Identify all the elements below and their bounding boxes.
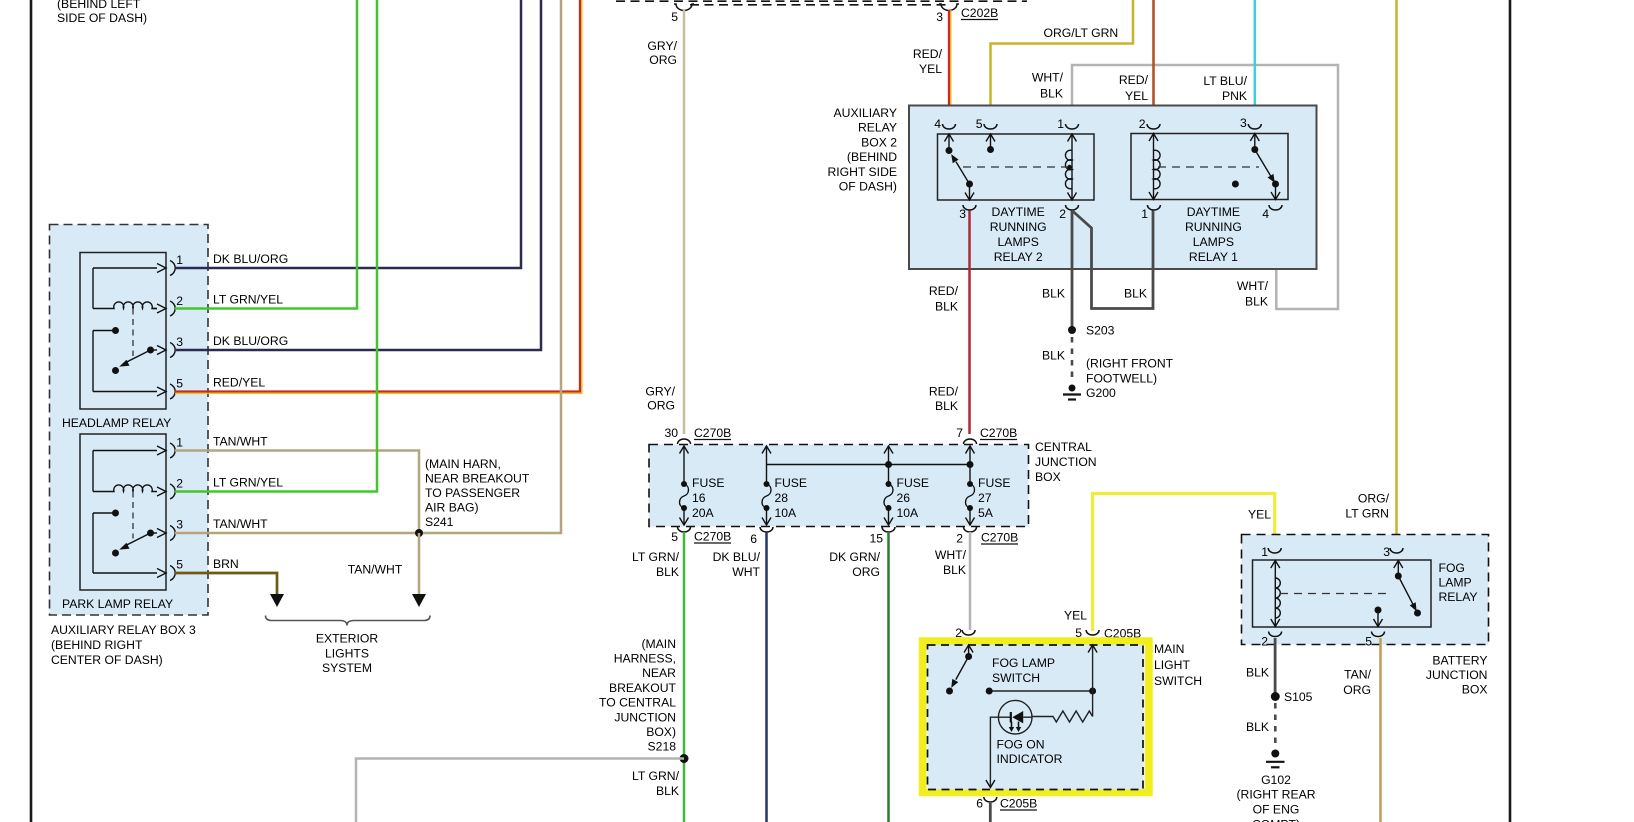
svg-text:CENTRAL: CENTRAL [1035, 440, 1092, 454]
svg-text:3: 3 [176, 335, 183, 349]
svg-text:20A: 20A [692, 506, 715, 520]
svg-text:LAMP: LAMP [1439, 576, 1472, 590]
svg-text:HEADLAMP RELAY: HEADLAMP RELAY [62, 416, 171, 430]
svg-text:MAIN: MAIN [1154, 642, 1184, 656]
svg-text:BOX 2: BOX 2 [861, 135, 897, 149]
svg-text:LT BLU/: LT BLU/ [1203, 74, 1247, 88]
svg-text:G200: G200 [1086, 386, 1116, 400]
svg-text:C205B: C205B [1000, 797, 1037, 811]
svg-text:27: 27 [978, 491, 992, 505]
svg-text:BLK: BLK [1042, 349, 1065, 363]
box: BATTERY JUNCTION BOX (dashed) [1242, 535, 1489, 697]
svg-text:3: 3 [959, 207, 966, 221]
fog lamp switch pin 5 internal wire and resistor [1032, 645, 1097, 722]
svg-text:NEAR BREAKOUT: NEAR BREAKOUT [425, 472, 530, 486]
svg-text:FOG ON: FOG ON [997, 738, 1045, 752]
relay 1 pin 3 connector [1240, 116, 1261, 130]
brace EXTERIOR LIGHTS SYSTEM [266, 616, 431, 676]
fog lamp relay internal pin 5 stub [1374, 607, 1383, 628]
svg-text:YEL: YEL [919, 62, 942, 76]
svg-text:PARK LAMP RELAY: PARK LAMP RELAY [62, 597, 173, 611]
svg-text:LT GRN/YEL: LT GRN/YEL [213, 476, 283, 490]
svg-text:DK BLU/: DK BLU/ [713, 550, 761, 564]
fog lamp relay pin 2 bottom connector [1261, 632, 1281, 649]
svg-text:SYSTEM: SYSTEM [322, 661, 372, 675]
svg-text:ORG: ORG [1343, 683, 1371, 697]
label (BEHIND LEFT SIDE OF DASH) [57, 0, 147, 25]
svg-text:BLK: BLK [935, 300, 958, 314]
svg-text:WHT/: WHT/ [1032, 71, 1064, 85]
relay 2 pin 1 connector [1057, 117, 1078, 131]
svg-text:3: 3 [1383, 545, 1390, 559]
svg-text:(BEHIND RIGHT: (BEHIND RIGHT [51, 638, 143, 652]
CJB pin 5 bottom connector [671, 527, 731, 544]
fog lamp switch internal switch [946, 645, 973, 695]
svg-text:JUNCTION: JUNCTION [614, 710, 676, 724]
headlamp relay pin connectors ) [170, 253, 183, 399]
svg-text:WHT: WHT [732, 565, 760, 579]
svg-text:3: 3 [176, 518, 183, 532]
fog lamp switch pin 2 connector [955, 626, 975, 640]
fuse 26 10A [884, 446, 929, 525]
svg-text:TAN/: TAN/ [1344, 668, 1371, 682]
wire BLK dashed S203 to G200 [1042, 337, 1072, 383]
relay 2 coil pin 1 to pin 2 [963, 134, 1077, 200]
fog lamp switch internal row wire [986, 688, 1096, 695]
svg-text:BRN: BRN [213, 557, 239, 571]
wire LT GRN/YEL headlamp pin 2 [175, 0, 357, 309]
headlamp relay coil loop and contacts [93, 264, 166, 397]
relay 1 pin 1 bottom connector [1141, 205, 1160, 221]
wire BLK dashed S105 to G102 [1246, 703, 1275, 746]
park lamp relay pin connectors ) [170, 436, 183, 581]
svg-text:TAN/WHT: TAN/WHT [348, 563, 403, 577]
svg-text:DK BLU/ORG: DK BLU/ORG [213, 252, 288, 266]
svg-text:ORG: ORG [852, 565, 880, 579]
svg-text:TAN/WHT: TAN/WHT [213, 517, 268, 531]
svg-text:BOX: BOX [1462, 683, 1488, 697]
svg-text:6: 6 [976, 797, 983, 811]
CJB pin 15 bottom connector [869, 527, 895, 546]
splice S203 [1068, 324, 1115, 338]
svg-text:C202B: C202B [961, 6, 998, 20]
svg-text:5: 5 [671, 530, 678, 544]
wire DK BLU/WHT from CJB pin 6 down [713, 532, 767, 822]
svg-text:GRY/: GRY/ [645, 385, 675, 399]
svg-text:3: 3 [936, 10, 943, 24]
svg-text:DK GRN/: DK GRN/ [829, 550, 880, 564]
wire WHT/BLK from CJB pin 2 down to fog lamp switch pin 2 [935, 532, 970, 630]
svg-text:FOG LAMP: FOG LAMP [992, 656, 1055, 670]
relay 2 pin 4 connector [934, 117, 955, 131]
wire GRY/ORG from C202B pin 5 down to CJB pin 30 [645, 10, 684, 434]
svg-text:AIR BAG): AIR BAG) [425, 501, 479, 515]
svg-text:5: 5 [176, 377, 183, 391]
ground G102 [1237, 750, 1316, 822]
svg-text:YEL: YEL [1125, 89, 1148, 103]
svg-text:RELAY: RELAY [858, 121, 897, 135]
svg-text:5: 5 [671, 10, 678, 24]
wire DK BLU/ORG headlamp pin 3 [175, 0, 541, 350]
wire RED/BLK relay 2 pin 3 down to CJB pin 7 [929, 211, 970, 435]
relay: DAYTIME RUNNING LAMPS RELAY 2 box [938, 134, 1095, 264]
wire BLK relay 1 pin 1 loop to relay 2 pin 2 [1072, 211, 1153, 309]
svg-text:ORG: ORG [647, 399, 675, 413]
svg-text:(MAIN: (MAIN [641, 637, 676, 651]
svg-text:LAMPS: LAMPS [998, 235, 1039, 249]
svg-text:LAMPS: LAMPS [1193, 235, 1234, 249]
svg-text:5: 5 [176, 558, 183, 572]
svg-text:RELAY 2: RELAY 2 [994, 250, 1043, 264]
svg-text:LT GRN: LT GRN [1345, 507, 1389, 521]
svg-text:4: 4 [934, 117, 941, 131]
svg-text:WHT/: WHT/ [935, 548, 967, 562]
svg-text:S203: S203 [1086, 324, 1115, 338]
fog lamp relay pin 5 bottom connector [1365, 632, 1384, 649]
wire WHT/BLK loop from relay 1 pin 4 around to relay 2 pin 1 [1032, 65, 1338, 309]
svg-text:ORG: ORG [649, 53, 677, 67]
fog lamp relay internal switch pin 3 [1394, 560, 1421, 617]
relay: DAYTIME RUNNING LAMPS RELAY 1 box [1131, 134, 1288, 265]
svg-text:(BEHIND: (BEHIND [847, 150, 897, 164]
svg-text:FUSE: FUSE [775, 476, 808, 490]
box: AUXILIARY RELAY BOX 3 (dashed) [50, 225, 209, 668]
svg-text:COMPT): COMPT) [1252, 818, 1300, 822]
svg-text:FOOTWELL): FOOTWELL) [1086, 372, 1157, 386]
wire DK BLU/ORG headlamp pin 1 [175, 0, 521, 268]
relay: HEADLAMP RELAY box [62, 253, 171, 431]
svg-text:5: 5 [1365, 635, 1372, 649]
CJB pin 2 bottom connector [956, 527, 1018, 546]
svg-text:RUNNING: RUNNING [1185, 220, 1242, 234]
svg-text:LT GRN/: LT GRN/ [632, 550, 680, 564]
svg-text:BLK: BLK [1040, 87, 1063, 101]
svg-text:FUSE: FUSE [978, 476, 1011, 490]
svg-text:2: 2 [176, 294, 183, 308]
fog lamp relay pin 1 connector [1261, 545, 1281, 559]
svg-text:LT GRN/: LT GRN/ [632, 769, 680, 783]
svg-text:CENTER OF DASH): CENTER OF DASH) [51, 653, 163, 667]
svg-text:BOX: BOX [1035, 470, 1061, 484]
svg-text:C270B: C270B [980, 426, 1017, 440]
fuse 28 10A [762, 446, 807, 525]
svg-text:3: 3 [1240, 116, 1247, 130]
connector pin 5 C202B [671, 4, 694, 24]
wire ORG/LT GRN from top into relay 2 pin 5 [991, 0, 1134, 124]
svg-text:LIGHTS: LIGHTS [325, 647, 369, 661]
svg-text:ORG/: ORG/ [1358, 492, 1390, 506]
svg-text:BLK: BLK [1245, 295, 1268, 309]
svg-text:JUNCTION: JUNCTION [1035, 455, 1097, 469]
wire BLK relay 2 pin 2 down to S203 [1042, 211, 1072, 331]
fog lamp switch pin 6 connector [976, 797, 1037, 811]
svg-text:5A: 5A [978, 506, 994, 520]
wire BRN park pin 5 to exterior lights arrow [175, 557, 284, 607]
park lamp relay coil loop and contacts [93, 446, 166, 578]
wire BLK from fog lamp switch pin 6 down [989, 803, 992, 822]
LED FOG ON INDICATOR [997, 700, 1063, 766]
relay: FOG LAMP RELAY box [1253, 560, 1478, 627]
svg-text:HARNESS,: HARNESS, [614, 652, 676, 666]
relay 2 pin 2 bottom connector [1059, 205, 1078, 221]
svg-text:2: 2 [1261, 635, 1268, 649]
svg-text:(BEHIND LEFT: (BEHIND LEFT [57, 0, 141, 11]
box: AUXILIARY RELAY BOX 2 [827, 106, 1316, 270]
relay 2 internal switch from pin 4 to pin 3 [945, 134, 975, 200]
svg-text:BLK: BLK [1246, 720, 1269, 734]
svg-text:BLK: BLK [656, 565, 679, 579]
svg-text:1: 1 [176, 436, 183, 450]
relay: PARK LAMP RELAY box [62, 434, 173, 611]
svg-text:RED/: RED/ [929, 385, 959, 399]
svg-text:SIDE OF DASH): SIDE OF DASH) [57, 11, 147, 25]
dashed connector bar C202B at top [616, 1, 1027, 5]
svg-text:S241: S241 [425, 515, 454, 529]
svg-text:BATTERY: BATTERY [1432, 654, 1487, 668]
wire: left page border line [30, 0, 33, 822]
svg-text:16: 16 [692, 491, 706, 505]
svg-text:YEL: YEL [1248, 508, 1271, 522]
svg-text:RELAY 1: RELAY 1 [1189, 250, 1238, 264]
svg-text:OF ENG: OF ENG [1253, 803, 1300, 817]
wire ORG/LT GRN from top down to fog lamp relay pin 3 [1345, 0, 1396, 548]
splice S105 [1271, 690, 1313, 704]
svg-text:1: 1 [1141, 207, 1148, 221]
svg-text:2: 2 [1059, 207, 1066, 221]
svg-text:BLK: BLK [1246, 666, 1269, 680]
relay 1 pin 4 bottom connector [1262, 205, 1282, 221]
svg-text:(RIGHT REAR: (RIGHT REAR [1237, 788, 1316, 802]
svg-text:WHT/: WHT/ [1237, 279, 1269, 293]
fog lamp relay pin 3 connector [1383, 545, 1403, 559]
svg-text:BLK: BLK [1124, 287, 1147, 301]
svg-text:(MAIN HARN,: (MAIN HARN, [425, 457, 501, 471]
CJB internal bus wire [767, 461, 974, 468]
relay 2 pin 5 connector [976, 117, 997, 131]
svg-text:AUXILIARY: AUXILIARY [834, 106, 897, 120]
relay 1 pin 2 connector [1139, 117, 1160, 131]
svg-text:TO CENTRAL: TO CENTRAL [599, 696, 676, 710]
svg-text:FUSE: FUSE [897, 476, 930, 490]
svg-text:FOG: FOG [1439, 561, 1465, 575]
box: FOG LAMP SWITCH (yellow highlight) [923, 641, 1150, 793]
svg-text:1: 1 [176, 253, 183, 267]
svg-text:BREAKOUT: BREAKOUT [609, 681, 677, 695]
relay 2 internal pin 5 contact stub [986, 134, 995, 153]
wire BLK fog lamp relay pin 2 to S105 [1246, 638, 1275, 697]
svg-text:S218: S218 [648, 740, 677, 754]
CJB pin 7 connector [956, 426, 1017, 444]
svg-text:INDICATOR: INDICATOR [997, 752, 1063, 766]
svg-text:G102: G102 [1261, 773, 1291, 787]
svg-text:DK BLU/ORG: DK BLU/ORG [213, 334, 288, 348]
splice S241 [415, 457, 530, 537]
svg-text:RED/: RED/ [1119, 73, 1149, 87]
svg-text:RED/YEL: RED/YEL [213, 376, 265, 390]
svg-text:ORG/LT GRN: ORG/LT GRN [1044, 26, 1119, 40]
svg-text:LT GRN/YEL: LT GRN/YEL [213, 293, 283, 307]
svg-text:BLK: BLK [1042, 287, 1065, 301]
wire DK GRN/ORG from CJB pin 15 down [829, 532, 888, 822]
svg-text:BLK: BLK [656, 784, 679, 798]
svg-text:2: 2 [176, 477, 183, 491]
svg-text:4: 4 [1262, 207, 1269, 221]
svg-text:JUNCTION: JUNCTION [1426, 668, 1488, 682]
wire TAN/ORG fog lamp relay pin 5 down [1343, 638, 1380, 822]
wire: right page border line [1509, 0, 1512, 822]
CJB pin 6 bottom connector [750, 527, 773, 546]
svg-text:10A: 10A [775, 506, 798, 520]
svg-text:5: 5 [976, 117, 983, 131]
svg-text:(RIGHT FRONT: (RIGHT FRONT [1086, 357, 1174, 371]
fog lamp relay coil pin 1 to pin 2 [1271, 560, 1390, 627]
svg-text:BLK: BLK [943, 563, 966, 577]
svg-text:S105: S105 [1284, 690, 1313, 704]
svg-text:1: 1 [1057, 117, 1064, 131]
svg-text:DAYTIME: DAYTIME [992, 205, 1045, 219]
svg-text:FUSE: FUSE [692, 476, 725, 490]
svg-text:TO PASSENGER: TO PASSENGER [425, 486, 520, 500]
svg-text:BLK: BLK [935, 399, 958, 413]
relay 2 pin 3 bottom connector [959, 205, 976, 221]
svg-text:RELAY: RELAY [1439, 590, 1478, 604]
svg-text:10A: 10A [897, 506, 920, 520]
svg-text:1: 1 [1261, 545, 1268, 559]
svg-text:C270B: C270B [694, 426, 731, 440]
svg-text:30: 30 [664, 426, 678, 440]
fuse 27 5A [966, 446, 1011, 525]
svg-text:PNK: PNK [1222, 89, 1247, 103]
svg-text:15: 15 [869, 532, 883, 546]
svg-text:GRY/: GRY/ [647, 39, 677, 53]
svg-text:2: 2 [956, 532, 963, 546]
svg-text:NEAR: NEAR [642, 666, 676, 680]
svg-text:7: 7 [956, 426, 963, 440]
svg-text:C270B: C270B [694, 530, 731, 544]
wire YEL from fog lamp switch pin 5 up and over to fog lamp relay pin 1 [1064, 494, 1275, 632]
svg-text:LIGHT: LIGHT [1154, 658, 1190, 672]
wire LT GRN/YEL park pin 2 [175, 0, 377, 492]
wire TAN/WHT drop from S241 to exterior lights arrow [348, 533, 426, 607]
relay 1 internal switch from pin 3 to pin 4 [1232, 134, 1280, 200]
wire RED/YEL headlamp pin 5 [175, 0, 582, 393]
fog lamp switch pin 5 connector [1075, 626, 1141, 641]
svg-text:C270B: C270B [981, 531, 1018, 545]
svg-text:RUNNING: RUNNING [990, 220, 1047, 234]
wire TAN/WHT park pin 3 to splice and up [175, 0, 561, 533]
fuse 16 20A [680, 446, 725, 525]
box: CENTRAL JUNCTION BOX (dashed) [649, 440, 1097, 527]
svg-text:OF DASH): OF DASH) [839, 180, 897, 194]
svg-text:DAYTIME: DAYTIME [1187, 205, 1240, 219]
wire RED/YEL from C202B pin 3 down to relay 2 pin 4 [913, 10, 951, 124]
svg-text:28: 28 [775, 491, 789, 505]
connector pin 3 C202B [936, 4, 998, 24]
svg-text:EXTERIOR: EXTERIOR [316, 632, 378, 646]
svg-text:SWITCH: SWITCH [1154, 674, 1202, 688]
label MAIN LIGHT SWITCH [1154, 642, 1202, 688]
wire TAN/WHT park pin 1 [175, 435, 419, 534]
svg-text:SWITCH: SWITCH [992, 671, 1040, 685]
svg-text:2: 2 [1139, 117, 1146, 131]
wire RED/YEL from top into relay 1 pin 2 [1119, 0, 1154, 124]
wire LT GRN/BLK from CJB pin 5 down [632, 532, 684, 822]
relay 1 coil pin 2 to pin 1 [1149, 134, 1259, 200]
svg-text:6: 6 [750, 532, 757, 546]
fog lamp switch wire to pin 6 [986, 717, 999, 787]
svg-text:RED/: RED/ [929, 284, 959, 298]
ground G200 [1063, 357, 1174, 401]
CJB pin 30 connector [664, 426, 731, 444]
splice S218 [599, 637, 688, 763]
svg-text:BOX): BOX) [646, 725, 676, 739]
svg-text:TAN/WHT: TAN/WHT [213, 435, 268, 449]
svg-text:RED/: RED/ [913, 47, 943, 61]
wire from S218 left and down [356, 759, 684, 822]
svg-text:RIGHT SIDE: RIGHT SIDE [827, 165, 897, 179]
svg-text:YEL: YEL [1064, 609, 1087, 623]
wire LT BLU/PNK from top into relay 1 pin 3 [1203, 0, 1254, 124]
svg-text:26: 26 [897, 491, 911, 505]
svg-text:AUXILIARY RELAY BOX 3: AUXILIARY RELAY BOX 3 [51, 623, 196, 637]
